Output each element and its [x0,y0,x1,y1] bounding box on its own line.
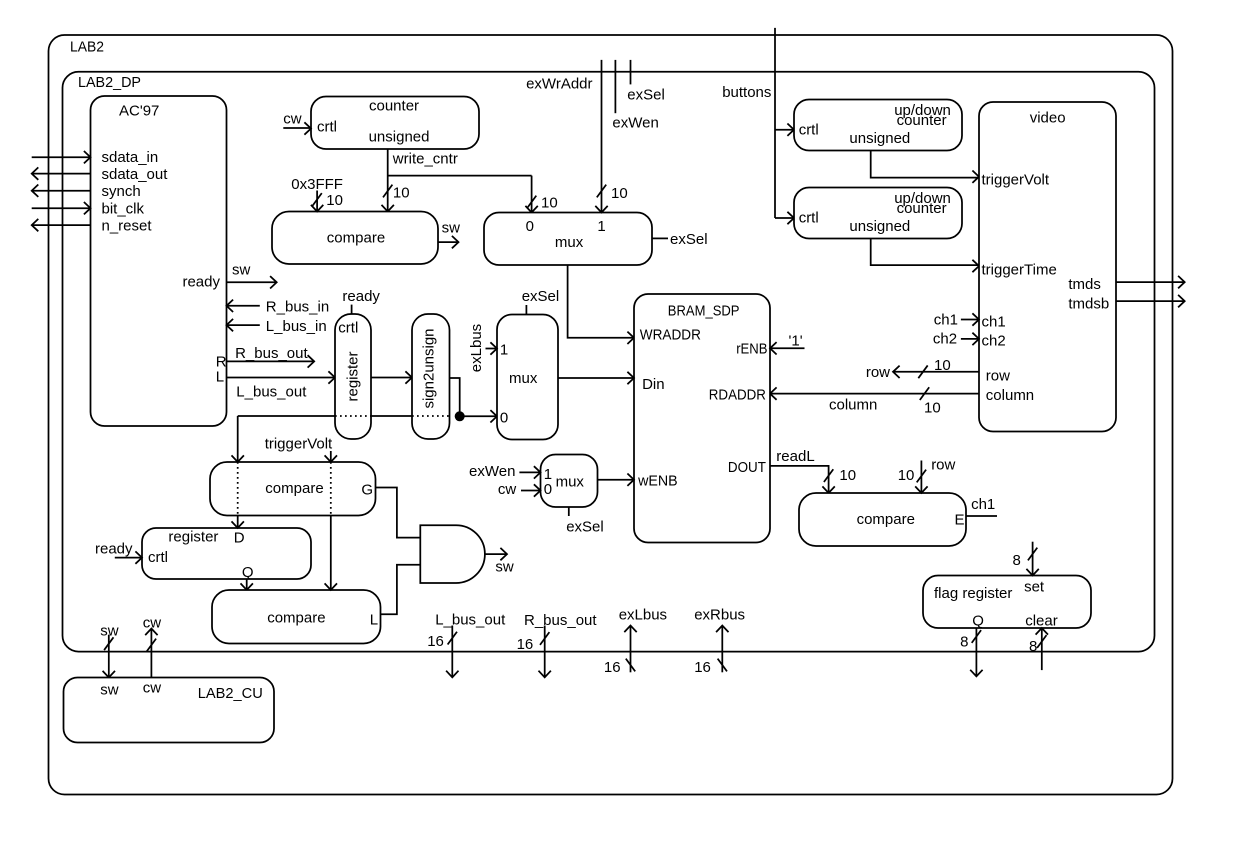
svg-text:tmdsb: tmdsb [1068,296,1109,313]
svg-text:0: 0 [500,410,508,427]
wire bus from junction back to compare chain [238,415,335,417]
wire register to sign2unsign [371,377,412,379]
svg-text:clear: clear [1025,613,1058,630]
svg-text:L_bus_out: L_bus_out [435,612,506,629]
svg-text:8: 8 [1013,552,1021,569]
wire dotted through compare [237,462,239,516]
bus slash exLbus [626,659,635,672]
svg-text:crtl: crtl [338,320,358,337]
svg-text:register: register [168,529,218,546]
svg-text:compare: compare [267,610,325,627]
wire R_bus_out [227,360,315,362]
svg-text:flag register: flag register [934,585,1012,602]
svg-text:10: 10 [924,400,941,417]
svg-text:D: D [234,530,245,547]
svg-text:exWen: exWen [469,463,515,480]
block AC'97 [91,96,227,426]
bus slash R_bus_out [540,632,549,645]
wire triggerVolt to compare L input [330,516,332,591]
svg-text:16: 16 [427,633,444,650]
bus slash set [1028,548,1037,561]
bus slash sw [104,637,113,650]
wire Q to compare L [246,579,248,590]
svg-text:ch1: ch1 [971,496,995,513]
svg-text:8: 8 [960,634,968,651]
wire sw output of AC'97 [227,281,277,283]
svg-text:1: 1 [500,342,508,359]
svg-text:sw: sw [100,682,119,699]
wire ready into register crtl [115,557,142,559]
svg-text:counter: counter [897,112,947,129]
block register vertical [335,314,371,439]
svg-text:video: video [1030,110,1066,127]
svg-text:counter: counter [369,98,419,115]
svg-text:ready: ready [342,288,380,305]
wire buttons to up/down counter 2 crtl [775,217,794,219]
block compare G [210,462,376,516]
svg-text:column: column [986,387,1034,404]
svg-text:exSel: exSel [670,231,708,248]
svg-text:'1': '1' [789,333,803,350]
svg-text:exSel: exSel [522,288,560,305]
svg-text:L: L [216,369,224,386]
block LAB2_CU [64,678,275,743]
svg-text:row: row [931,457,955,474]
wire row into compare E [920,461,922,494]
junction dot [455,411,465,421]
bus slash mux input 1 [597,185,606,198]
wire 0x3FFF into compare [316,191,318,212]
svg-text:LAB2_DP: LAB2_DP [78,74,141,91]
wire sw down to LAB2_CU [108,635,110,678]
wire sw output of compare [438,241,459,243]
wire row output of video [893,371,979,373]
wire sw output of AND gate [485,553,507,555]
svg-text:synch: synch [102,183,141,200]
block BRAM_SDP [634,294,770,543]
wire ch1 into video [961,319,979,321]
svg-text:sw: sw [495,559,514,576]
svg-text:sdata_in: sdata_in [102,149,159,166]
svg-text:crtl: crtl [148,549,168,566]
svg-text:set: set [1024,579,1045,596]
svg-text:crtl: crtl [799,210,819,227]
svg-text:16: 16 [517,636,534,653]
svg-text:bit_clk: bit_clk [102,201,145,218]
wire exSel stub [630,60,632,85]
svg-text:register: register [345,351,362,401]
AND gate [420,525,485,583]
svg-text:cw: cw [283,111,302,128]
wire buttons vertical [774,28,776,218]
svg-text:AC'97: AC'97 [119,103,159,120]
svg-text:0x3FFF: 0x3FFF [291,176,343,193]
svg-text:RDADDR: RDADDR [709,387,766,404]
wire L_bus_out stub [451,626,453,678]
svg-text:n_reset: n_reset [102,218,153,235]
svg-text:crtl: crtl [799,122,819,139]
bus slash 0x3FFF [312,193,321,206]
svg-text:10: 10 [611,185,628,202]
wire sign2unsign output to junction [450,378,460,416]
svg-text:counter: counter [897,200,947,217]
wire write_cntr branch to mux input 0 [388,175,532,177]
svg-text:ch2: ch2 [982,333,1006,350]
wire junction to mux input 0 [460,415,497,417]
bus slash column [920,387,929,400]
svg-text:row: row [986,368,1010,385]
block sign2unsign [412,314,450,439]
bus slash mux input 0 [527,196,536,209]
svg-text:Q: Q [972,613,984,630]
wire tmdsb output [1116,300,1185,302]
svg-text:mux: mux [556,474,585,491]
wire sdata_in input [32,156,91,158]
wire L_bus_out to register [227,377,336,379]
svg-text:10: 10 [839,467,856,484]
svg-text:LAB2: LAB2 [70,39,104,56]
svg-text:8: 8 [1029,638,1037,655]
wire ready stub into register [351,305,353,314]
wire E output ch1 [966,515,997,517]
wire exSel select stub below mux [568,507,570,516]
block mux small [541,455,598,508]
bus slash cw [147,639,156,652]
wire '1' into rENB [770,347,805,349]
svg-text:sw: sw [442,220,461,237]
svg-text:exLbus: exLbus [619,607,667,624]
svg-text:mux: mux [555,234,584,251]
svg-text:R_bus_out: R_bus_out [524,612,597,629]
wire triggerVolt dotted through compare [330,462,332,516]
svg-text:triggerTime: triggerTime [982,262,1057,279]
svg-text:cw: cw [498,481,517,498]
wire ch2 into video [961,338,979,340]
svg-text:exLbus: exLbus [468,324,485,372]
svg-text:WRADDR: WRADDR [640,327,701,344]
svg-text:triggerVolt: triggerVolt [265,436,333,453]
svg-text:0: 0 [544,481,552,498]
svg-text:16: 16 [694,659,711,676]
svg-text:cw: cw [143,680,162,697]
svg-text:compare: compare [857,511,915,528]
svg-text:exWrAddr: exWrAddr [526,76,592,93]
svg-text:unsigned: unsigned [849,130,910,147]
wire compare to register D input [237,516,239,529]
bus slash readL [824,469,833,482]
svg-text:exWen: exWen [612,115,658,132]
wire G output to AND gate [376,488,421,538]
svg-text:ch1: ch1 [934,312,958,329]
block counter unsigned [311,97,479,150]
wire column from video to RDADDR [770,393,979,395]
svg-text:0: 0 [526,218,534,235]
wire up/down counter 1 to triggerVolt [871,151,979,178]
wire L output to AND gate [381,565,421,614]
svg-text:sign2unsign: sign2unsign [421,328,438,408]
bus slash L_bus_out [448,632,457,645]
wire mux2 output to Din [558,377,634,379]
wire exSel select stub [525,305,527,315]
svg-text:Q: Q [242,564,254,581]
wire bit_clk input [32,207,91,209]
wire down into compare G input [237,416,239,462]
svg-text:wENB: wENB [637,473,678,490]
svg-text:write_cntr: write_cntr [392,151,458,168]
svg-text:L_bus_out: L_bus_out [236,384,307,401]
svg-text:E: E [955,512,965,529]
svg-text:exSel: exSel [627,87,665,104]
wire exLbus stub up [630,626,632,673]
svg-text:G: G [361,482,373,499]
svg-text:ready: ready [182,274,220,291]
block video [979,102,1116,432]
bus slash Q [972,630,981,643]
svg-text:1: 1 [597,218,605,235]
svg-text:rENB: rENB [736,341,767,358]
svg-text:tmds: tmds [1068,276,1101,293]
svg-text:ready: ready [95,541,133,558]
svg-text:buttons: buttons [722,84,771,101]
wire Q output down [975,628,977,676]
wire write_cntr from counter to compare [387,149,389,212]
svg-text:16: 16 [604,659,621,676]
bus slash write_cntr [383,185,392,198]
svg-text:L_bus_in: L_bus_in [266,318,327,335]
svg-text:unsigned: unsigned [849,218,910,235]
svg-text:compare: compare [327,230,385,247]
wire up/down counter 2 to triggerTime [871,239,979,266]
bus slash clear [1037,635,1046,648]
wire exWrAddr down to mux input 1 [601,60,603,213]
svg-text:exRbus: exRbus [694,607,745,624]
svg-text:R_bus_out: R_bus_out [235,345,308,362]
inner module box LAB2_DP [63,72,1155,652]
svg-text:LAB2_CU: LAB2_CU [198,685,263,702]
svg-text:L: L [370,612,378,629]
svg-text:mux: mux [509,370,538,387]
svg-text:triggerVolt: triggerVolt [982,172,1050,189]
block mux top [484,213,652,266]
svg-text:exSel: exSel [566,519,604,536]
bus slash row compare [917,470,926,483]
block compare L [212,590,381,644]
wire triggerVolt into compare [330,451,332,462]
wire L_bus_in input [227,324,260,326]
svg-text:sw: sw [232,262,251,279]
block compare E [799,493,966,546]
svg-text:R_bus_in: R_bus_in [266,299,329,316]
block flag register [923,576,1091,629]
wire clear input up [1041,628,1043,670]
block up/down counter 2 [794,188,962,239]
svg-text:10: 10 [393,185,410,202]
svg-text:BRAM_SDP: BRAM_SDP [668,303,740,320]
wire exWen into mux input 1 [519,471,540,473]
block up/down counter 1 [794,100,962,151]
wire cw into counter crtl [283,127,311,129]
svg-text:10: 10 [541,195,558,212]
wire exSel select stub of mux top [652,237,668,239]
wire sdata_out output [32,173,91,175]
svg-text:compare: compare [265,480,323,497]
svg-text:10: 10 [326,192,343,209]
wire set input [1032,542,1034,576]
svg-text:row: row [866,364,890,381]
wire DOUT readL to compare [770,466,829,493]
wire tmds output [1116,281,1185,283]
svg-text:ch1: ch1 [982,314,1006,331]
svg-text:10: 10 [898,467,915,484]
bus slash row [918,365,927,378]
svg-text:ch2: ch2 [933,331,957,348]
svg-text:10: 10 [934,357,951,374]
svg-text:readL: readL [776,448,814,465]
wire n_reset output [32,224,91,226]
wire cw into mux input 0 [521,490,541,492]
block mux middle [497,315,558,440]
wire R_bus_in input [227,305,260,307]
wire exWen stub [614,60,616,113]
block register DQ [142,528,311,579]
wire mux top output to WRADDR [568,265,634,338]
svg-text:unsigned: unsigned [369,129,430,146]
wire cw up from LAB2_CU [150,629,152,679]
wire buttons to up/down counter 1 crtl [775,129,794,131]
wire exRbus stub up [721,626,723,673]
svg-text:Din: Din [642,376,665,393]
svg-text:sdata_out: sdata_out [102,166,169,183]
wire exLbus into mux input 1 [486,348,498,350]
svg-text:DOUT: DOUT [728,459,766,476]
wire mux3 output to wENB [598,479,635,481]
wire synch output [32,190,91,192]
svg-text:crtl: crtl [317,119,337,136]
svg-text:column: column [829,397,877,414]
block compare top [272,212,438,265]
bus slash exRbus [718,659,727,672]
wire R_bus_out stub [544,626,546,678]
